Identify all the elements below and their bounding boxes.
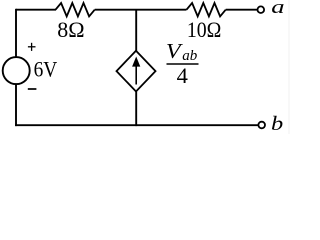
svg-text:a: a xyxy=(271,0,284,17)
wire: top-right horizontal from R2 to terminal a xyxy=(226,9,258,11)
plus sign of V1 xyxy=(28,43,36,51)
wire: top-left horizontal from corner to R1 xyxy=(16,9,56,11)
terminal b open circle xyxy=(258,122,265,129)
wire: middle vertical from dependent source to bottom wire xyxy=(135,92,137,127)
svg-text:b: b xyxy=(271,112,283,134)
svg-text:4: 4 xyxy=(177,63,188,88)
svg-text:8Ω: 8Ω xyxy=(57,17,84,42)
arrow inside dependent source xyxy=(132,57,140,85)
svg-text:10Ω: 10Ω xyxy=(187,17,221,42)
resistor R2 10-ohm zigzag xyxy=(187,3,226,16)
svg-text:6V: 6V xyxy=(34,58,58,81)
minus sign of V1 xyxy=(28,88,37,90)
terminal a open circle xyxy=(258,6,265,13)
label Vab/4 fraction xyxy=(166,39,199,88)
dependent current source diamond xyxy=(117,51,156,92)
svg-text:ab: ab xyxy=(182,48,198,64)
wire: middle vertical from top node to dependent source xyxy=(135,10,137,52)
resistor R1 8-ohm zigzag xyxy=(56,3,95,16)
svg-text:V: V xyxy=(166,39,183,62)
voltage source V1 circle xyxy=(3,57,30,84)
wire: bottom horizontal to terminal b xyxy=(15,124,258,126)
wire: left vertical below source xyxy=(15,84,17,126)
faint page-edge artifact line xyxy=(288,0,289,134)
wire: left vertical above source xyxy=(15,9,17,57)
wire: top middle horizontal from R1 to R2 through node xyxy=(95,9,187,11)
